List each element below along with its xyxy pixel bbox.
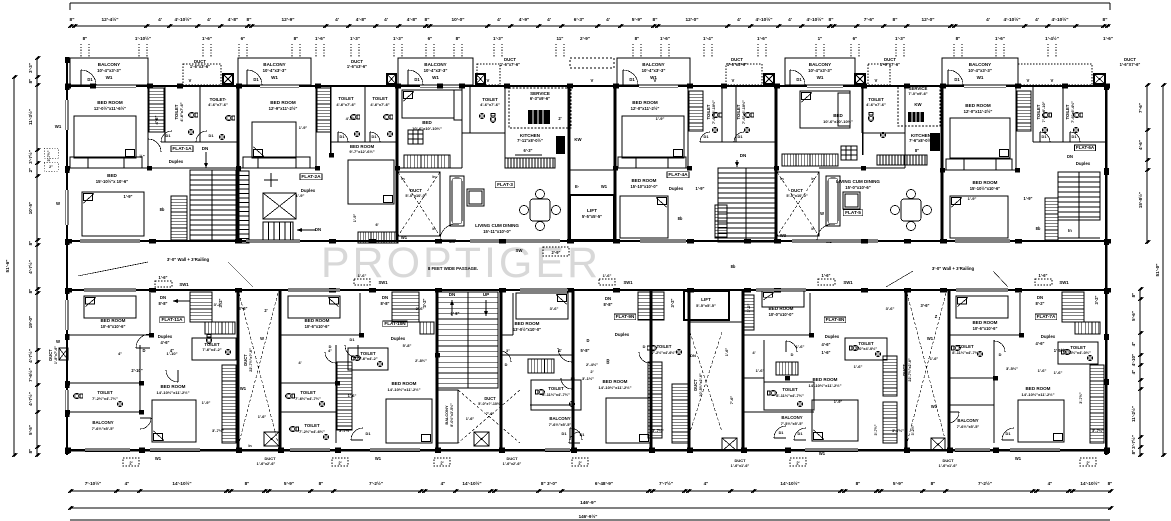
svg-text:4": 4" <box>170 348 174 353</box>
svg-text:DN: DN <box>160 295 166 300</box>
svg-text:D1: D1 <box>1006 431 1012 436</box>
flat 1A bedroom walls <box>147 85 149 168</box>
svg-text:7’-6½"x5’-5": 7’-6½"x5’-5" <box>92 426 115 431</box>
svg-text:1’-9": 1’-9" <box>1024 196 1033 201</box>
svg-text:3’-6": 3’-6" <box>239 306 248 311</box>
svg-text:7’-6½"x5’-5": 7’-6½"x5’-5" <box>549 422 572 427</box>
svg-text:DN: DN <box>202 146 209 151</box>
svg-text:BALCONY: BALCONY <box>92 420 113 425</box>
svg-text:1’-6": 1’-6" <box>756 368 765 373</box>
svg-text:Duplex: Duplex <box>158 334 173 339</box>
svg-text:D1: D1 <box>738 134 744 139</box>
svg-text:BALCONY: BALCONY <box>424 62 446 67</box>
bottom wall column blobs <box>65 448 71 453</box>
svg-text:Duplex: Duplex <box>1041 334 1056 339</box>
flat 2A stairs <box>317 88 331 132</box>
balcony top 5 <box>785 58 855 85</box>
svg-text:8": 8" <box>294 36 299 41</box>
svg-text:DN: DN <box>605 296 611 301</box>
duct box top 6 <box>1094 74 1105 84</box>
svg-text:BED: BED <box>833 113 843 118</box>
balcony windows bottom wall <box>85 449 130 451</box>
svg-text:BED: BED <box>107 173 117 178</box>
svg-text:4’-6": 4’-6" <box>1036 341 1045 346</box>
svg-text:4’-6": 4’-6" <box>1138 140 1143 150</box>
svg-text:4": 4" <box>125 481 130 486</box>
svg-text:1’-6": 1’-6" <box>822 273 831 278</box>
stairs right of duct <box>672 384 688 443</box>
svg-text:6": 6" <box>428 36 433 41</box>
bottom overall dimension line 2 <box>70 519 1110 521</box>
svg-text:7’-10½": 7’-10½" <box>85 480 102 486</box>
duct box top 5 <box>855 74 865 84</box>
svg-text:12’-4½": 12’-4½" <box>101 16 118 23</box>
svg-text:TOILET: TOILET <box>706 104 711 119</box>
svg-text:5’-6": 5’-6" <box>1131 311 1136 321</box>
svg-text:14’-10½": 14’-10½" <box>780 480 799 486</box>
svg-text:TOILET: TOILET <box>97 390 113 395</box>
svg-text:4’-6"x7’-6": 4’-6"x7’-6" <box>208 102 228 107</box>
svg-text:1’-9": 1’-9" <box>352 214 357 223</box>
svg-text:DUCT: DUCT <box>243 354 248 366</box>
svg-text:3’-7½": 3’-7½" <box>1130 435 1136 449</box>
svg-text:4": 4" <box>1131 342 1136 347</box>
flat 3 service counter <box>528 110 550 124</box>
svg-text:1’-3": 1’-3" <box>350 36 360 41</box>
svg-text:8’-8": 8’-8" <box>381 301 390 306</box>
svg-text:2': 2' <box>590 369 593 374</box>
svg-text:10’-4"x3’-3": 10’-4"x3’-3" <box>424 68 448 73</box>
svg-text:BALCONY: BALCONY <box>809 62 831 67</box>
flat 11A toilet upper <box>192 338 236 360</box>
svg-text:BED ROOM: BED ROOM <box>632 178 657 183</box>
flat 1A bed 2 <box>82 192 144 236</box>
svg-text:1’-6"x1’-6": 1’-6"x1’-6" <box>731 464 750 468</box>
flat 3 dining table <box>520 190 561 231</box>
svg-text:TOILET: TOILET <box>338 96 354 101</box>
svg-text:PROPTIGER: PROPTIGER <box>321 239 601 287</box>
svg-text:D: D <box>143 348 146 353</box>
svg-text:D1: D1 <box>340 134 346 139</box>
svg-text:BED ROOM: BED ROOM <box>101 318 126 323</box>
flat 3 side table <box>467 189 484 206</box>
svg-text:DUCT: DUCT <box>942 458 954 463</box>
svg-text:19’-0": 19’-0" <box>28 316 33 328</box>
svg-text:1’-6": 1’-6" <box>466 416 475 421</box>
svg-text:Duplex: Duplex <box>669 186 684 191</box>
svg-text:W1: W1 <box>375 456 382 461</box>
svg-text:146’-9": 146’-9" <box>580 500 596 506</box>
svg-text:8": 8" <box>653 17 658 23</box>
svg-text:TOILET: TOILET <box>548 386 564 391</box>
left wall column blobs <box>65 57 70 63</box>
svg-text:D: D <box>587 338 590 343</box>
svg-text:DUCT: DUCT <box>264 456 276 461</box>
flat 5 entrance door <box>817 224 833 240</box>
svg-text:10’-6"x10’-10½": 10’-6"x10’-10½" <box>823 119 853 124</box>
bottom band extra doors <box>325 352 336 363</box>
flat 8N label <box>824 317 846 323</box>
svg-text:12’-0": 12’-0" <box>685 17 698 23</box>
central staircase flat1A <box>190 170 236 240</box>
svg-text:4’-6"x7’-6": 4’-6"x7’-6" <box>480 102 500 107</box>
flat 5 duct X <box>777 172 819 236</box>
svg-text:BED ROOM: BED ROOM <box>813 377 838 382</box>
svg-text:1’-9": 1’-9" <box>299 125 308 130</box>
svg-text:In: In <box>1068 228 1072 233</box>
duct box top 4 <box>764 74 774 84</box>
svg-text:FLAT-6A: FLAT-6A <box>1076 145 1095 150</box>
svg-text:4": 4" <box>704 481 709 486</box>
svg-text:V: V <box>1027 78 1030 83</box>
svg-text:1’-6": 1’-6" <box>660 36 670 41</box>
svg-text:7’-6": 7’-6" <box>864 17 874 23</box>
bottom duct box 2 <box>474 432 489 446</box>
svg-text:2’-10": 2’-10" <box>131 368 142 373</box>
svg-text:8": 8" <box>1131 450 1136 455</box>
flat 6A label <box>1074 145 1095 151</box>
flat 8N small stairs <box>776 362 798 375</box>
top overall dimension line <box>70 2 1110 4</box>
svg-text:7’-2½"x4’-6½": 7’-2½"x4’-6½" <box>652 351 676 355</box>
balcony top 6 <box>942 58 1018 85</box>
svg-text:7’-2½"x4’-6½": 7’-2½"x4’-6½" <box>299 429 325 434</box>
svg-text:2’-9": 2’-9" <box>580 36 590 41</box>
svg-text:3": 3" <box>506 349 510 353</box>
svg-text:2': 2' <box>558 116 561 121</box>
svg-text:11’-2½": 11’-2½" <box>1130 406 1136 422</box>
svg-text:1’-3": 1’-3" <box>393 36 403 41</box>
svg-text:6’-3": 6’-3" <box>524 148 533 153</box>
flat 9N inner walls <box>512 293 514 335</box>
svg-text:SW1: SW1 <box>378 280 388 285</box>
svg-text:8": 8" <box>83 36 88 41</box>
svg-text:SW: SW <box>516 248 524 253</box>
flat 5 stove <box>930 133 940 151</box>
svg-text:8": 8" <box>247 17 252 23</box>
svg-text:BED ROOM: BED ROOM <box>305 318 330 323</box>
svg-text:4’-7½": 4’-7½" <box>27 349 33 363</box>
svg-text:BED ROOM: BED ROOM <box>965 103 991 108</box>
flat 8N toilet right <box>845 338 887 360</box>
svg-text:4’-6": 4’-6" <box>822 342 831 347</box>
duct box top 2 <box>387 74 396 84</box>
svg-text:1’-6": 1’-6" <box>724 348 729 357</box>
svg-text:10’-4"x3’-3": 10’-4"x3’-3" <box>968 68 992 73</box>
svg-text:3’-0" Wall + 3’Railing: 3’-0" Wall + 3’Railing <box>932 266 975 271</box>
svg-text:11": 11" <box>557 36 564 41</box>
svg-text:BED ROOM: BED ROOM <box>1026 386 1051 391</box>
svg-text:3’-7½": 3’-7½" <box>1092 428 1104 433</box>
svg-text:6’-3": 6’-3" <box>574 17 584 23</box>
svg-text:8 FEET WIDE PASSAGE.: 8 FEET WIDE PASSAGE. <box>428 266 478 271</box>
svg-text:KW: KW <box>914 102 922 107</box>
svg-text:1’-4": 1’-4" <box>703 36 713 41</box>
flat 4A stairs lower narrow <box>715 205 727 238</box>
flat 1A doors <box>148 139 161 152</box>
svg-text:8": 8" <box>28 289 33 294</box>
svg-text:1’-8"x7’-6": 1’-8"x7’-6" <box>54 346 58 364</box>
flat 10N label <box>383 321 407 327</box>
duct box top 1 <box>223 74 233 84</box>
svg-text:Duplex: Duplex <box>391 336 406 341</box>
flat 9N small stairs <box>528 359 554 373</box>
svg-text:BED ROOM: BED ROOM <box>270 100 296 105</box>
flat 1A bed 1 <box>74 116 136 158</box>
svg-text:51’-0": 51’-0" <box>1155 263 1161 276</box>
svg-text:D1: D1 <box>779 431 784 435</box>
flat 8N door bottom <box>774 426 786 438</box>
svg-text:14’-10½": 14’-10½" <box>462 480 481 486</box>
flat 4A central stairs <box>718 168 775 242</box>
svg-text:8": 8" <box>956 36 961 41</box>
svg-text:Duplex: Duplex <box>825 334 840 339</box>
svg-text:9’-7"x12’-6½": 9’-7"x12’-6½" <box>349 149 374 154</box>
top band module walls <box>237 85 240 240</box>
svg-text:2": 2" <box>28 168 33 173</box>
svg-text:DUCT: DUCT <box>693 379 698 391</box>
svg-text:4': 4' <box>207 17 211 23</box>
svg-text:4': 4' <box>737 17 741 23</box>
svg-text:SW1: SW1 <box>623 280 633 285</box>
svg-text:4': 4' <box>158 17 162 23</box>
svg-text:1’-6"x1’-6": 1’-6"x1’-6" <box>939 464 958 468</box>
svg-text:D1: D1 <box>372 134 378 139</box>
lift shaft <box>570 195 614 240</box>
svg-text:8b: 8b <box>678 216 683 221</box>
bottom small 2ft dotted boxes <box>123 458 139 466</box>
flat 3 stove <box>556 136 565 154</box>
svg-text:1’-4½": 1’-4½" <box>1045 35 1059 41</box>
shaft S1 duct box bottom <box>264 432 279 446</box>
svg-text:10’-4"x3’-3": 10’-4"x3’-3" <box>263 68 287 73</box>
svg-text:146’-9½": 146’-9½" <box>579 513 598 519</box>
svg-text:FLAT-2A: FLAT-2A <box>301 174 321 180</box>
svg-text:1’-9": 1’-9" <box>696 186 705 191</box>
svg-text:8": 8" <box>829 17 834 23</box>
svg-text:BED ROOM: BED ROOM <box>973 180 998 185</box>
svg-text:DUCT: DUCT <box>48 349 53 361</box>
flat 10N stairs right <box>337 362 352 430</box>
svg-text:BED ROOM: BED ROOM <box>97 100 123 105</box>
right lower segment dimension line <box>1139 289 1141 455</box>
svg-text:UP: UP <box>483 292 489 297</box>
svg-text:8": 8" <box>28 449 33 454</box>
flat 5 bed <box>800 91 850 128</box>
flat 2A duct xbox <box>263 193 296 219</box>
svg-text:8b: 8b <box>160 207 165 212</box>
svg-text:BED ROOM: BED ROOM <box>515 321 540 326</box>
svg-text:12’-0": 12’-0" <box>921 17 934 23</box>
svg-text:2": 2" <box>49 165 53 169</box>
svg-text:7’-6": 7’-6" <box>1138 103 1143 113</box>
svg-text:15’-10"x10’-0": 15’-10"x10’-0" <box>630 184 657 189</box>
svg-text:D1: D1 <box>796 77 802 82</box>
svg-text:7’-7½": 7’-7½" <box>659 480 673 486</box>
flat 1A stairs lower <box>171 196 187 240</box>
svg-text:4": 4" <box>1048 481 1053 486</box>
svg-text:D1: D1 <box>954 77 960 82</box>
flat 3 dresser checker <box>408 130 423 144</box>
svg-text:8’-0½"x3’-5½": 8’-0½"x3’-5½" <box>450 403 454 427</box>
svg-text:15’-11"x10’-0": 15’-11"x10’-0" <box>483 229 511 234</box>
svg-text:8’-2": 8’-2" <box>1036 301 1045 306</box>
svg-text:W1: W1 <box>155 456 162 461</box>
balcony entrance doors <box>81 70 96 85</box>
top dimension labels <box>70 16 1108 23</box>
duct below lift <box>690 332 722 432</box>
svg-text:1’-6": 1’-6" <box>1103 36 1113 41</box>
svg-text:BED ROOM: BED ROOM <box>973 320 998 325</box>
svg-text:DN: DN <box>315 227 321 232</box>
svg-text:4': 4' <box>547 17 551 23</box>
flat 3 stairs mid <box>404 155 450 168</box>
svg-text:DUCT: DUCT <box>902 364 907 376</box>
svg-text:TOILET: TOILET <box>782 387 798 392</box>
svg-text:4’-6"x7’-6": 4’-6"x7’-6" <box>370 102 389 107</box>
flat 2A bottom right stairs <box>358 232 398 243</box>
svg-text:3’-3": 3’-3" <box>28 63 33 73</box>
svg-text:4": 4" <box>328 348 332 353</box>
svg-text:Duplex: Duplex <box>1076 161 1091 166</box>
svg-text:W1: W1 <box>106 75 113 80</box>
svg-text:SW1: SW1 <box>179 282 189 287</box>
svg-text:7’-6½"x4’-7½": 7’-6½"x4’-7½" <box>295 396 321 401</box>
svg-text:2': 2' <box>338 461 341 466</box>
svg-text:BALCONY: BALCONY <box>549 416 570 421</box>
svg-text:W1: W1 <box>931 404 938 409</box>
svg-text:1’-6": 1’-6" <box>995 36 1005 41</box>
svg-text:4": 4" <box>118 351 122 356</box>
shaft S1 duct <box>239 293 278 443</box>
flat 3 sofa <box>450 176 464 226</box>
shaft S2 duct box bottom <box>931 438 945 451</box>
svg-text:10’-4"x3’-3": 10’-4"x3’-3" <box>642 68 666 73</box>
flat 1A stairs upper <box>149 88 164 132</box>
svg-text:4': 4' <box>335 17 339 23</box>
balcony top 3 <box>398 58 473 85</box>
svg-text:D1: D1 <box>209 133 215 138</box>
svg-text:4': 4' <box>752 350 755 355</box>
svg-text:D1: D1 <box>629 77 635 82</box>
svg-text:10’-6"x10’-6": 10’-6"x10’-6" <box>101 324 126 329</box>
svg-text:1’-6": 1’-6" <box>796 344 805 349</box>
svg-text:3’-7½": 3’-7½" <box>212 428 224 433</box>
svg-text:W1: W1 <box>432 75 439 80</box>
flat 11A label <box>160 317 184 323</box>
svg-text:3’-6": 3’-6" <box>416 306 425 311</box>
svg-text:4’-7½": 4’-7½" <box>27 392 33 406</box>
svg-text:7’-5½"x5’-5": 7’-5½"x5’-5" <box>781 421 804 426</box>
svg-text:5’-9": 5’-9" <box>893 481 903 486</box>
svg-text:2': 2' <box>440 461 443 466</box>
svg-text:8": 8" <box>319 481 324 486</box>
svg-text:11’-3½": 11’-3½" <box>27 109 33 125</box>
flat 9N labels right <box>614 314 636 320</box>
svg-text:2’-4½": 2’-4½" <box>586 362 598 367</box>
svg-text:6": 6" <box>241 36 246 41</box>
svg-text:7’-2½": 7’-2½" <box>978 480 992 486</box>
svg-text:3’-0" Wall + 3’Railing: 3’-0" Wall + 3’Railing <box>167 257 210 262</box>
svg-text:1’-6": 1’-6" <box>258 414 267 419</box>
svg-text:1’-6"x3’-6": 1’-6"x3’-6" <box>347 64 367 69</box>
svg-text:W1: W1 <box>271 75 278 80</box>
svg-text:22’-7½"x2’-6": 22’-7½"x2’-6" <box>908 358 912 381</box>
balcony top 1 <box>70 58 148 85</box>
svg-text:TOILET: TOILET <box>1065 104 1070 119</box>
svg-text:D1: D1 <box>1042 134 1048 139</box>
svg-text:8": 8" <box>1103 17 1108 23</box>
svg-text:BED: BED <box>422 120 432 125</box>
svg-text:BALCONY: BALCONY <box>263 62 285 67</box>
mid wall junction blobs <box>147 166 152 171</box>
shaft S2 duct <box>907 293 946 443</box>
svg-text:W1: W1 <box>55 124 62 129</box>
flat 7A toilet <box>1058 342 1098 364</box>
svg-text:LIVING CUM DINING: LIVING CUM DINING <box>475 223 519 228</box>
svg-text:2’-9": 2’-9" <box>552 250 561 255</box>
svg-text:1’-6": 1’-6" <box>854 364 863 369</box>
svg-text:12’-0"x11’-2½": 12’-0"x11’-2½" <box>631 106 660 111</box>
flat 2A lower stairs <box>263 222 293 242</box>
svg-text:7’-6": 7’-6" <box>486 411 495 416</box>
svg-text:TOILET: TOILET <box>300 390 316 395</box>
flat 1A bed band <box>70 157 142 168</box>
svg-text:W1: W1 <box>1015 456 1022 461</box>
svg-text:DUCT: DUCT <box>484 396 496 401</box>
svg-text:D: D <box>999 352 1002 357</box>
svg-text:3’-7½": 3’-7½" <box>1079 392 1083 404</box>
svg-text:3’-5½": 3’-5½" <box>1006 366 1018 371</box>
svg-text:5’-0"x?’-10½": 5’-0"x?’-10½" <box>478 402 502 406</box>
svg-text:D: D <box>607 358 610 363</box>
svg-text:7’-6½": 7’-6½" <box>27 368 33 382</box>
svg-text:1’-9": 1’-9" <box>124 194 133 199</box>
svg-text:D1: D1 <box>87 77 93 82</box>
flat 10N window bottom <box>370 449 420 451</box>
corridor column blobs <box>65 239 72 244</box>
flat 11A inner doors <box>136 334 150 348</box>
flat 3 duct X <box>398 172 440 236</box>
svg-text:7’-6"x6’-10": 7’-6"x6’-10" <box>1042 101 1046 122</box>
svg-text:2': 2' <box>796 461 799 466</box>
svg-text:TOILET: TOILET <box>372 96 388 101</box>
svg-text:10’-5½"x2’-6": 10’-5½"x2’-6" <box>699 373 703 396</box>
flat 6A stairs upper <box>1017 91 1031 131</box>
svg-text:FLAT-7A: FLAT-7A <box>1037 314 1056 319</box>
svg-text:8": 8" <box>1108 481 1113 486</box>
svg-text:8b: 8b <box>731 264 736 269</box>
svg-text:5’-8": 5’-8" <box>581 348 590 353</box>
svg-text:1’-9": 1’-9" <box>968 196 977 201</box>
svg-text:LIVING CUM DINING: LIVING CUM DINING <box>836 179 880 184</box>
svg-text:3’-2½": 3’-2½" <box>911 424 915 435</box>
svg-text:TOILET: TOILET <box>657 344 672 349</box>
svg-text:4': 4' <box>384 17 388 23</box>
svg-text:4’-6": 4’-6" <box>161 340 170 345</box>
svg-text:E-: E- <box>575 184 580 189</box>
svg-text:4’-8": 4’-8" <box>407 17 417 23</box>
svg-text:LIFT: LIFT <box>701 297 711 302</box>
svg-text:D1: D1 <box>571 377 576 381</box>
svg-text:8": 8" <box>1131 293 1136 298</box>
svg-text:3’-6": 3’-6" <box>886 306 895 311</box>
svg-text:7’-6"x8’-0½": 7’-6"x8’-0½" <box>909 138 933 143</box>
svg-text:Duplex: Duplex <box>615 332 630 337</box>
svg-text:1’-6": 1’-6" <box>315 36 325 41</box>
svg-text:BED ROOM: BED ROOM <box>161 384 186 389</box>
svg-text:7’-11"x8’-0½": 7’-11"x8’-0½" <box>517 138 543 143</box>
